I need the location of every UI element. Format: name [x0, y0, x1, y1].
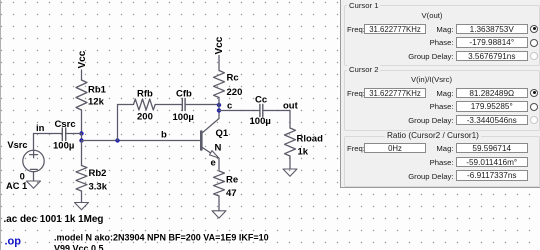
wire emitter down [218, 158, 220, 171]
power flag Vcc (right rail) [214, 36, 225, 54]
wire feedback to Rfb [118, 104, 134, 106]
ground below Vsrc [27, 181, 41, 188]
svg-text:.op: .op [5, 236, 22, 248]
wire feedback vertical [117, 105, 119, 141]
svg-text:3.3k: 3.3k [89, 182, 108, 193]
svg-text:Vsrc: Vsrc [7, 140, 27, 150]
junction collector/Cfb [217, 103, 221, 107]
svg-text:.model N ako:2N3904 NPN BF=200: .model N ako:2N3904 NPN BF=200 VA=1E9 IK… [54, 233, 269, 243]
group Ratio [344, 136, 540, 187]
label Q1 [216, 128, 229, 139]
capacitor Cc [260, 105, 263, 117]
net label c [227, 101, 232, 112]
svg-text:Rc: Rc [227, 73, 239, 84]
resistor Rc [214, 71, 225, 98]
svg-text:47: 47 [226, 188, 237, 199]
net label b [161, 130, 167, 141]
value 47 [226, 188, 237, 199]
svg-text:Rb1: Rb1 [88, 85, 107, 96]
wire Cfb to collector node [185, 104, 219, 106]
wire in-node to base-node [81, 134, 83, 141]
value AC 1 [6, 181, 27, 191]
svg-text:AC 1: AC 1 [6, 181, 27, 191]
group Cursor 1 [344, 5, 540, 66]
directive .ac [4, 214, 104, 225]
cursor readout dialog [340, 0, 540, 188]
value 100µ (Cc) [250, 116, 271, 127]
svg-text:1k: 1k [298, 147, 309, 158]
svg-text:200: 200 [137, 112, 153, 123]
wire down to Rload [289, 111, 291, 129]
directive .model line 1 [54, 233, 269, 243]
wire Rb2 to ground [81, 191, 83, 203]
net label in [36, 123, 45, 134]
value 100µ (Csrc) [53, 141, 74, 152]
wire Rload to ground [289, 156, 291, 169]
resistor Rload [285, 128, 296, 156]
net label out [283, 101, 299, 112]
junction base-node [79, 138, 83, 142]
ground below Rload [283, 169, 297, 176]
svg-text:e: e [211, 158, 216, 169]
svg-text:Cfb: Cfb [176, 89, 192, 100]
svg-text:100µ: 100µ [53, 141, 74, 152]
svg-text:in: in [36, 123, 45, 134]
ground below Re [212, 211, 226, 218]
directive .op [5, 236, 22, 248]
wire Rb1 to node in [81, 110, 83, 134]
junction feedback tap [115, 138, 119, 142]
svg-text:Csrc: Csrc [55, 119, 76, 130]
label Cc [255, 95, 267, 106]
label Rc [227, 73, 239, 84]
ground below Rb2 [75, 203, 89, 210]
resistor Re [214, 171, 225, 196]
svg-text:.ac dec 1001 1k 1Meg: .ac dec 1001 1k 1Meg [4, 214, 104, 225]
wire Rc to collector [218, 98, 220, 119]
wire collector out [219, 110, 259, 112]
wire Vsrc top [33, 134, 35, 151]
svg-text:b: b [161, 130, 167, 141]
resistor Rfb [134, 99, 156, 110]
wire in horizontal [34, 133, 63, 135]
wire base [82, 140, 200, 142]
svg-text:220: 220 [227, 87, 243, 98]
label Rb2 [89, 168, 107, 179]
svg-text:100µ: 100µ [173, 112, 194, 123]
svg-text:Re: Re [226, 175, 238, 186]
label Rload [297, 134, 324, 145]
label Vsrc [7, 140, 27, 150]
wire Vcc stub to Rb1 [81, 70, 83, 80]
svg-text:V99 Vcc 0 5: V99 Vcc 0 5 [54, 244, 104, 250]
directive .model line 2 [54, 244, 104, 250]
wire Rfb to Cfb [155, 104, 181, 106]
junction collector/Cc [217, 108, 221, 112]
svg-text:Rfb: Rfb [137, 89, 153, 100]
svg-text:Rload: Rload [297, 134, 324, 145]
wire Cc to corner [263, 110, 290, 112]
svg-text:12k: 12k [88, 97, 105, 108]
label Cfb [176, 89, 192, 100]
svg-text:Vcc: Vcc [77, 50, 88, 68]
value 3.3k [89, 182, 108, 193]
capacitor Cfb [182, 99, 185, 111]
voltage source Vsrc [23, 150, 44, 171]
label Csrc [55, 119, 76, 130]
svg-text:N: N [215, 143, 222, 154]
value 0 [20, 172, 25, 182]
power flag Vcc (left rail) [77, 50, 88, 68]
label Re [226, 175, 238, 186]
wire base-node down to Rb2 [81, 141, 83, 166]
junction in-node [79, 131, 83, 135]
wire Vsrc bottom to ground [33, 172, 35, 181]
svg-text:Rb2: Rb2 [89, 168, 107, 179]
wire Vcc stub to Rc [218, 56, 220, 71]
value 1k [298, 147, 309, 158]
wire Csrc to junction [66, 133, 82, 135]
svg-text:out: out [283, 101, 299, 112]
resistor Rb1 [76, 80, 87, 110]
net label e [211, 158, 216, 169]
capacitor Csrc [62, 128, 65, 141]
svg-text:Q1: Q1 [216, 128, 229, 139]
label Rb1 [88, 85, 107, 96]
wire Re to ground [218, 196, 220, 211]
svg-text:Vcc: Vcc [214, 36, 225, 54]
value 100µ (Cfb) [173, 112, 194, 123]
label Rfb [137, 89, 153, 100]
model label N [215, 143, 222, 154]
value 200 [137, 112, 153, 123]
transistor Q1 [201, 119, 219, 159]
value 220 [227, 87, 243, 98]
group Cursor 2 [344, 70, 540, 131]
resistor Rb2 [76, 166, 87, 192]
svg-text:c: c [227, 101, 232, 112]
svg-text:100µ: 100µ [250, 116, 271, 127]
svg-text:Cc: Cc [255, 95, 267, 106]
value 12k [88, 97, 105, 108]
